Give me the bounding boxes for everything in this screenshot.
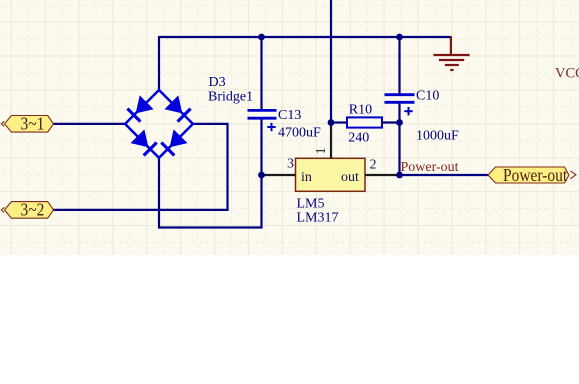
svg-text:3: 3 <box>287 157 294 172</box>
port 3~2 <box>1 199 53 219</box>
R10 right lead <box>382 121 400 123</box>
port Power-out <box>488 165 576 185</box>
port 3~1 <box>1 113 53 133</box>
svg-text:Power-out: Power-out <box>503 165 568 185</box>
wire: output to Power-out port <box>400 174 489 176</box>
ground symbol <box>433 36 469 70</box>
C13 polarity plus <box>267 123 275 131</box>
diode D3-3 (bottom-left arm) <box>131 129 158 156</box>
svg-text:Bridge1: Bridge1 <box>208 90 253 105</box>
wire: C10 lower lead down to output node <box>398 102 400 176</box>
diode D3-1 (top-left arm) <box>127 95 154 122</box>
LM317 pin 1 (adj) stub <box>330 126 332 158</box>
junction dot: rail/C13 <box>258 34 265 41</box>
svg-text:Power-out: Power-out <box>401 160 459 175</box>
LM317 pin 2 (out) stub <box>365 174 400 176</box>
junction dot: R10/C10 <box>396 119 403 126</box>
C10 polarity plus <box>404 107 412 115</box>
svg-text:240: 240 <box>348 131 369 146</box>
wire: vertical from top edge to LM317 adj pin (x=331) <box>330 0 332 126</box>
diode D3-2 (top-right arm) <box>164 95 191 122</box>
svg-text:1000uF: 1000uF <box>416 129 459 144</box>
bridge rectifier D3 diamond outline <box>125 90 193 158</box>
svg-text:out: out <box>341 170 359 185</box>
junction dot: adj/R10 <box>328 119 335 126</box>
junction dot: output node <box>396 172 403 179</box>
wire: C13 upper lead <box>260 37 262 110</box>
R10 left lead <box>331 121 347 123</box>
resistor R10 body <box>347 117 382 127</box>
svg-text:3~2: 3~2 <box>21 199 45 219</box>
capacitor C13 plates <box>248 110 277 118</box>
svg-text:C13: C13 <box>278 108 301 123</box>
svg-text:R10: R10 <box>349 103 372 118</box>
wire: bridge right vertex down to 3~2 port <box>54 124 228 210</box>
junction dot: rail/C10 <box>396 34 403 41</box>
svg-text:3~1: 3~1 <box>21 113 45 133</box>
svg-text:C10: C10 <box>416 89 439 104</box>
wire: top ground rail <box>159 37 451 90</box>
junction dot: input node <box>258 172 265 179</box>
svg-text:LM317: LM317 <box>297 211 339 226</box>
wire: C13 lower lead to input node <box>260 118 262 176</box>
wire: bridge bottom vertex to LM317 input node <box>159 158 262 228</box>
svg-text:in: in <box>301 170 312 185</box>
LM317 pin 3 (in) stub <box>262 174 296 176</box>
svg-text:4700uF: 4700uF <box>278 126 321 141</box>
capacitor C10 plates <box>385 95 415 103</box>
svg-text:LM5: LM5 <box>297 197 325 212</box>
diode D3-4 (bottom-right arm) <box>161 129 188 156</box>
wire: C10 upper lead <box>398 37 400 95</box>
op-amp/regulator U: LM317 body <box>296 158 366 191</box>
svg-text:2: 2 <box>370 158 377 173</box>
svg-text:VCC: VCC <box>555 66 579 82</box>
svg-text:1: 1 <box>314 147 329 154</box>
wire: port 3~1 to bridge left vertex <box>54 123 126 125</box>
svg-text:D3: D3 <box>209 75 226 90</box>
